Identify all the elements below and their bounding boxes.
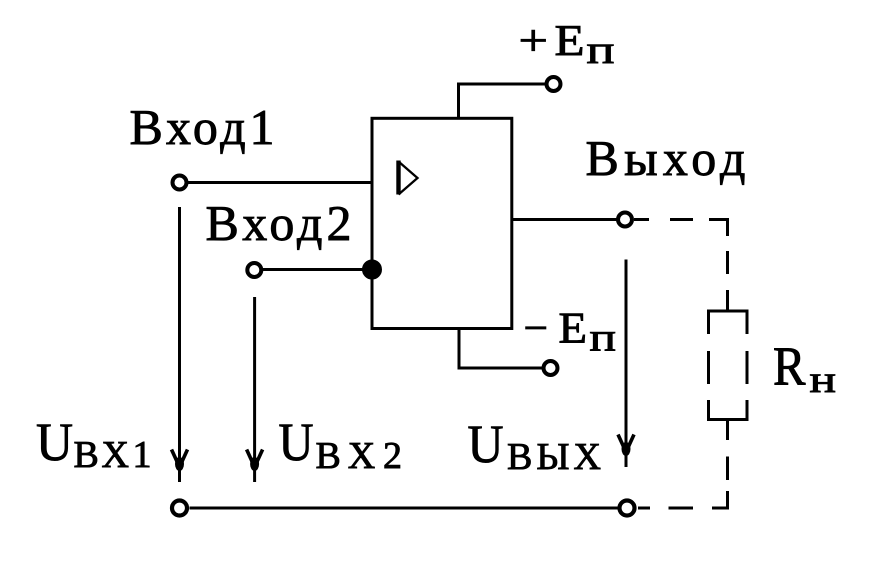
svg-text:Вход1: Вход1 xyxy=(130,99,275,155)
svg-text:Вход2: Вход2 xyxy=(206,195,352,251)
svg-text:Выход: Выход xyxy=(586,130,746,186)
